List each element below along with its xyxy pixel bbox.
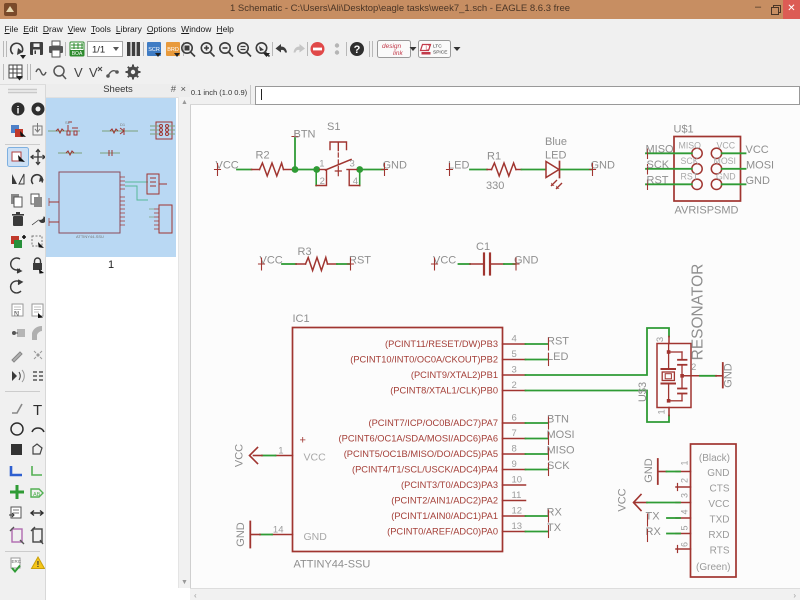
wire LED to R1 — [470, 169, 487, 171]
svg-text:11: 11 — [512, 490, 522, 501]
wire VCC to R2 — [237, 169, 252, 171]
mini R3 — [58, 151, 82, 155]
bus tool (blue) — [11, 466, 22, 475]
svg-text:5: 5 — [512, 349, 517, 360]
svg-text:link: link — [393, 50, 404, 57]
svg-text:U$1: U$1 — [674, 124, 694, 136]
svg-text:LED: LED — [545, 150, 566, 162]
IC1 body — [293, 328, 503, 552]
svg-text:6: 6 — [512, 413, 517, 424]
svg-text:2: 2 — [320, 176, 325, 187]
svg-text:GND: GND — [707, 468, 729, 479]
wire pin7 to MOSI — [526, 438, 548, 440]
IC1 pin 1 stub — [276, 455, 293, 457]
IC1 pin 14 stub — [272, 534, 293, 536]
print icon — [49, 41, 63, 57]
net stub tick — [548, 464, 550, 476]
undo — [276, 44, 288, 53]
probe path — [108, 71, 117, 76]
net stub tick — [548, 510, 550, 522]
S1 lever — [326, 160, 352, 171]
resonator pin 1 stub — [668, 408, 670, 416]
resonator pin 3 stub — [668, 337, 670, 344]
dimension tool — [31, 511, 43, 516]
svg-text:S1: S1 — [327, 121, 340, 133]
svg-text:ATTINY44-SSU: ATTINY44-SSU — [294, 559, 371, 571]
net stub tick TX — [647, 514, 649, 526]
header body — [691, 444, 737, 577]
svg-text:T: T — [33, 402, 42, 419]
wire LED1 to GND — [561, 169, 591, 171]
svg-text:!: ! — [37, 560, 40, 569]
smash tool — [12, 329, 25, 337]
wire pin12 to RX — [526, 515, 548, 517]
wire IC1 pin3 to resonator pin3 — [526, 328, 670, 375]
net stub tick VCC — [259, 258, 265, 270]
wire VCC right — [722, 152, 746, 154]
svg-text:(Black): (Black) — [699, 453, 730, 464]
svg-text:VCC: VCC — [304, 452, 327, 464]
svg-text:VCC: VCC — [717, 141, 736, 151]
svg-text:(PCINT8/XTAL1/CLK)PB0: (PCINT8/XTAL1/CLK)PB0 — [390, 386, 498, 396]
svg-text:R3: R3 — [298, 246, 312, 258]
net stub tick VCC — [215, 164, 221, 176]
unconnected pin cross 6 — [677, 546, 679, 553]
svg-text:MISO: MISO — [646, 143, 675, 155]
svg-text:GND: GND — [723, 363, 735, 388]
svg-text:U$3: U$3 — [637, 382, 649, 402]
resistor R1 — [487, 163, 522, 176]
array tool — [33, 372, 43, 380]
svg-text:VCC: VCC — [234, 444, 246, 467]
svg-text:7: 7 — [512, 428, 517, 439]
switch S1 — [313, 121, 363, 187]
LTC SPICE button — [419, 41, 461, 58]
svg-text:1: 1 — [657, 409, 668, 414]
svg-text:ATTINY44-SSU: ATTINY44-SSU — [76, 234, 104, 239]
title bar — [0, 0, 800, 19]
wire VCC to R3 — [282, 263, 296, 265]
rect tool — [11, 444, 22, 455]
net stub tick — [548, 526, 550, 538]
net stub tick — [548, 354, 550, 366]
miter tool — [32, 326, 42, 340]
svg-text:VCC: VCC — [746, 144, 769, 156]
info tool — [12, 103, 25, 116]
horizontal scrollbar — [190, 588, 800, 600]
IC1 pin function labels — [339, 339, 498, 537]
duplicate tool — [31, 194, 42, 207]
S1 actuator bracket — [330, 142, 347, 151]
S1 contact stub left — [320, 169, 326, 171]
wire GND supply to pin1 — [659, 471, 667, 473]
svg-text:5: 5 — [680, 525, 690, 530]
svg-text:(PCINT11/RESET/DW)PB3: (PCINT11/RESET/DW)PB3 — [385, 339, 498, 349]
grip — [8, 90, 37, 93]
mini resonator — [147, 174, 159, 194]
header pin numbers (rotated) — [680, 460, 690, 547]
wire pin13 to TX — [526, 531, 548, 533]
junction bottom — [667, 399, 671, 403]
erc tool — [11, 558, 22, 572]
resistor R2 — [252, 163, 295, 176]
toolbar row 2 — [0, 61, 800, 85]
frame tool 2 — [31, 527, 43, 544]
svg-text:VCC: VCC — [260, 255, 283, 267]
mini IC1 — [59, 172, 120, 233]
net stub ticks left — [647, 149, 649, 190]
svg-text:LT: LT — [426, 46, 431, 52]
header pin names — [696, 453, 730, 573]
connector U$1 body — [674, 137, 741, 202]
wrench tool — [32, 215, 47, 227]
net stub tick GND — [382, 164, 388, 176]
busy dots — [335, 43, 339, 47]
svg-text:CTS: CTS — [710, 484, 730, 495]
svg-text:(PCINT9/XTAL2)PB1: (PCINT9/XTAL2)PB1 — [411, 370, 498, 380]
wire RX to pin5 — [667, 533, 680, 535]
open/import icon — [11, 43, 23, 55]
wire S1 to GND — [360, 169, 383, 171]
canvas — [190, 105, 800, 588]
svg-text:(PCINT3/T0/ADC3)PA3: (PCINT3/T0/ADC3)PA3 — [401, 480, 498, 490]
svg-text:330: 330 — [486, 180, 504, 192]
svg-text:N: N — [14, 311, 19, 318]
svg-text:LED: LED — [547, 351, 568, 363]
crystal lead bottom — [668, 384, 670, 401]
resistor R3 — [296, 258, 337, 271]
net stub tick GND — [590, 164, 596, 176]
add part tool — [11, 235, 26, 248]
svg-text:(PCINT6/OC1A/SDA/MOSI/ADC6)PA6: (PCINT6/OC1A/SDA/MOSI/ADC6)PA6 — [339, 434, 498, 444]
svg-text:V: V — [74, 65, 83, 80]
slice tool — [12, 370, 24, 382]
svg-text:(PCINT0/AREF/ADC0)PA0: (PCINT0/AREF/ADC0)PA0 — [387, 527, 498, 537]
wire MISO — [646, 152, 692, 154]
wire pin8 to MISO — [526, 453, 548, 455]
svg-text:RTS: RTS — [710, 546, 730, 557]
mini connector U$1 — [150, 122, 175, 139]
wire pin1 to pin2 — [315, 170, 317, 186]
circle tool — [11, 423, 23, 435]
supply symbol VCC arrow — [634, 495, 642, 511]
wire SCK — [646, 168, 692, 170]
LED arrows — [552, 181, 562, 189]
pin junction 3 — [356, 166, 363, 173]
svg-text:RST: RST — [681, 172, 699, 182]
svg-text:RST: RST — [647, 174, 669, 186]
S1 actuator cross — [335, 167, 341, 176]
svg-text:VCC: VCC — [708, 499, 729, 510]
svg-text:1/1: 1/1 — [92, 45, 105, 56]
svg-text:R2: R2 — [256, 150, 270, 162]
svg-text:(PCINT2/AIN1/ADC2)PA2: (PCINT2/AIN1/ADC2)PA2 — [391, 496, 498, 506]
zoom in — [201, 43, 214, 57]
wire RST — [646, 183, 692, 185]
command bar — [190, 84, 800, 105]
wire junction to S1 — [295, 169, 314, 171]
gear — [126, 65, 141, 80]
mini FTDI — [159, 205, 172, 233]
svg-text:MISO: MISO — [679, 141, 702, 151]
svg-text:(PCINT4/T1/SCL/USCK/ADC4)PA4: (PCINT4/T1/SCL/USCK/ADC4)PA4 — [352, 465, 498, 475]
net stub tick LED — [447, 164, 453, 176]
value tool — [32, 304, 43, 318]
mini C1 — [100, 150, 120, 156]
zoom 1:1 — [238, 43, 251, 57]
net stub tick VCC — [432, 258, 438, 270]
svg-text:BRD: BRD — [167, 47, 179, 53]
grid icon — [9, 65, 23, 81]
svg-text:1: 1 — [680, 460, 690, 465]
svg-text:SCR: SCR — [148, 47, 160, 53]
BRD orange icon — [166, 42, 180, 57]
polygon tool — [33, 444, 42, 454]
wire resonator pin2 to GND — [700, 375, 716, 377]
crystal lead top — [668, 344, 670, 369]
svg-text:1: 1 — [278, 446, 283, 457]
display layers tool — [11, 125, 26, 137]
svg-text:GND: GND — [746, 175, 771, 187]
svg-text:1: 1 — [319, 159, 324, 170]
net stub tick GND — [513, 258, 519, 270]
svg-text:ERC: ERC — [12, 559, 22, 564]
link bottom node to caps — [669, 400, 682, 402]
lock tool — [33, 258, 44, 274]
net stub tick — [548, 448, 550, 460]
svg-text:4: 4 — [353, 176, 358, 187]
minimize button — [750, 0, 766, 19]
svg-text:design: design — [382, 43, 402, 50]
svg-text:IC1: IC1 — [293, 313, 310, 325]
mini circuit 2 — [102, 128, 138, 135]
columns icon — [127, 42, 140, 56]
junction tool — [10, 485, 24, 499]
select tool (active) — [8, 148, 29, 167]
svg-text:C1: C1 — [476, 241, 490, 253]
change tool — [11, 280, 22, 293]
sheet combo 1/1 — [88, 42, 123, 57]
net stub tick — [548, 433, 550, 445]
mini IC1 right pins — [120, 177, 125, 225]
design link button — [378, 41, 417, 58]
junction node BTN — [292, 166, 299, 173]
svg-text:3: 3 — [655, 337, 666, 342]
svg-text:9: 9 — [512, 459, 517, 470]
S1 actuator dashed stem — [337, 153, 339, 164]
capacitor A — [681, 352, 683, 359]
move tool — [31, 150, 45, 165]
svg-text:SCK: SCK — [647, 159, 670, 171]
svg-text:GND: GND — [514, 255, 539, 267]
paste tool — [11, 258, 21, 273]
app icon — [4, 3, 17, 16]
layer settings tool — [33, 123, 42, 135]
svg-text:BOA: BOA — [72, 51, 83, 57]
diode LED1 — [546, 162, 562, 190]
resonator U$3 body — [657, 344, 691, 408]
svg-text:4: 4 — [512, 334, 517, 345]
rotate tool — [31, 175, 42, 184]
wire pin6 to BTN — [526, 422, 548, 424]
svg-text:AVRISPSMD: AVRISPSMD — [675, 205, 739, 217]
Q magnifier — [54, 66, 66, 79]
svg-text:TX: TX — [547, 522, 562, 534]
net stub tick RST — [348, 258, 354, 270]
svg-text:+: + — [300, 435, 306, 447]
S1 contact stub right — [347, 169, 357, 171]
svg-text:(PCINT5/OC1B/MISO/DO/ADC5)PA5: (PCINT5/OC1B/MISO/DO/ADC5)PA5 — [344, 449, 498, 459]
U$1 pin names — [679, 141, 736, 182]
wire pin4 to RST — [526, 343, 548, 345]
SCH blue icon — [147, 42, 161, 57]
optimize dot — [34, 351, 42, 359]
split tool — [12, 352, 22, 362]
capacitor B — [681, 376, 683, 388]
help — [350, 42, 364, 56]
svg-text:MOSI: MOSI — [746, 159, 774, 171]
svg-text:RESONATOR: RESONATOR — [690, 264, 707, 361]
svg-text:?: ? — [354, 44, 361, 56]
header pin stubs — [676, 472, 691, 553]
name tool — [12, 304, 23, 318]
svg-text:6: 6 — [680, 542, 690, 547]
crystal plate bottom — [662, 383, 676, 385]
sheets panel — [46, 85, 178, 600]
svg-text:3: 3 — [350, 159, 355, 170]
sine icon — [36, 69, 46, 75]
U$1 pads — [692, 148, 722, 189]
svg-text:RXD: RXD — [708, 530, 729, 541]
svg-text:MISO: MISO — [547, 445, 576, 457]
svg-text:SPICE: SPICE — [433, 50, 447, 56]
wire tool — [12, 404, 22, 413]
svg-text:TXD: TXD — [710, 515, 730, 526]
svg-text:4: 4 — [680, 509, 690, 514]
wire TX to pin4 — [667, 517, 680, 519]
net stub tick RX — [647, 530, 649, 542]
show tool — [32, 103, 45, 116]
svg-text:2: 2 — [680, 478, 690, 483]
wire R1 to LED1 — [522, 169, 546, 171]
svg-text:(PCINT10/INT0/OC0A/CKOUT)PB2: (PCINT10/INT0/OC0A/CKOUT)PB2 — [350, 355, 498, 365]
svg-text:13: 13 — [512, 521, 523, 532]
svg-text:14: 14 — [273, 525, 284, 536]
unconnected pin cross 2 — [677, 484, 679, 491]
crystal body — [662, 372, 674, 381]
mini bus to resonator — [125, 182, 148, 200]
svg-text:2: 2 — [512, 380, 517, 391]
svg-text:MOSI: MOSI — [547, 429, 575, 441]
stop sign — [311, 42, 325, 56]
junction mid — [680, 374, 684, 378]
supply symbol GND — [250, 522, 260, 548]
svg-text:8: 8 — [512, 444, 517, 455]
svg-text:D1: D1 — [120, 122, 126, 127]
maximize button — [771, 5, 781, 15]
svg-text:R1: R1 — [487, 151, 501, 163]
resonator pin 2 stub — [683, 375, 700, 377]
svg-text:10: 10 — [512, 475, 523, 486]
net stub tick — [548, 338, 550, 350]
group tool — [32, 236, 44, 248]
arc tool — [32, 428, 44, 432]
wire R3 to RST — [337, 263, 350, 265]
svg-text:V: V — [89, 65, 98, 80]
svg-text:LTC: LTC — [433, 44, 442, 50]
svg-text:3: 3 — [680, 493, 690, 498]
wire GND supply to pin 14 — [260, 534, 272, 536]
IC1 right pin numbers — [512, 334, 523, 533]
wire MOSI right — [722, 168, 746, 170]
net stub tick — [548, 417, 550, 429]
zoom out — [220, 43, 233, 57]
errors tool — [32, 557, 45, 569]
svg-text:RST: RST — [349, 255, 371, 267]
wire VCC supply to pin3 — [634, 502, 647, 504]
net tool (green) — [32, 466, 42, 475]
copy tool — [11, 194, 22, 207]
zoom select — [256, 43, 270, 57]
CAM green icon — [70, 42, 84, 57]
svg-text:12: 12 — [512, 506, 523, 517]
left tool column — [0, 85, 46, 600]
wire IC1 pin2 to resonator pin1 — [526, 391, 670, 423]
svg-text:(PCINT1/AIN0/ADC1)PA1: (PCINT1/AIN0/ADC1)PA1 — [391, 511, 498, 521]
supply symbol GND — [657, 459, 659, 484]
svg-text:Blue: Blue — [545, 136, 567, 148]
svg-text:GND: GND — [716, 172, 736, 182]
menu bar — [0, 19, 800, 37]
svg-text:SCK: SCK — [681, 156, 699, 166]
svg-text:S1: S1 — [65, 120, 71, 125]
redo (disabled) — [294, 44, 306, 53]
wire C1 to GND — [504, 263, 515, 265]
close button — [783, 0, 800, 19]
attribute tool — [9, 507, 21, 518]
svg-text:BTN: BTN — [547, 414, 569, 426]
svg-text:i: i — [17, 106, 20, 117]
mini left pins — [49, 198, 59, 226]
capacitor C1 — [470, 254, 504, 275]
link top node to caps — [669, 351, 682, 353]
wire pin5 to LED — [526, 359, 548, 361]
pin junction 1 — [313, 166, 320, 173]
delete tool — [12, 212, 24, 226]
zoom fit — [182, 43, 195, 57]
supply symbol VCC — [250, 448, 263, 464]
S1 pad box 2 — [316, 171, 327, 186]
svg-text:2: 2 — [691, 362, 696, 373]
svg-text:GND: GND — [235, 522, 247, 547]
svg-text:MOSI: MOSI — [714, 156, 736, 166]
toolbar row 1 — [0, 37, 800, 61]
mirror tool — [12, 174, 24, 184]
svg-text:(Green): (Green) — [696, 562, 730, 573]
wire VCC to C1 — [459, 263, 471, 265]
S1 pad box 4 — [349, 171, 360, 186]
wire VCC supply to pin 1 — [262, 455, 276, 457]
svg-text:3: 3 — [512, 365, 517, 376]
svg-text:BTN: BTN — [294, 129, 316, 141]
crystal plate top — [662, 368, 676, 370]
supply symbol GND — [716, 363, 723, 388]
frame tool 1 — [10, 527, 24, 544]
svg-text:VCC: VCC — [617, 488, 629, 511]
net stub tick BTN — [292, 131, 298, 138]
save icon — [30, 42, 43, 55]
svg-text:GND: GND — [643, 458, 655, 483]
